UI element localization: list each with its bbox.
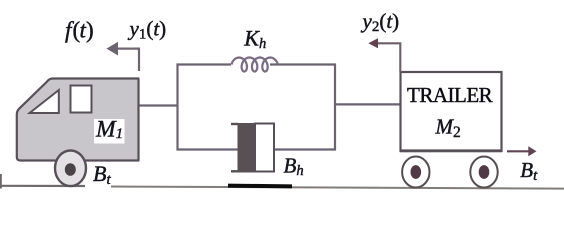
svg-text:TRAILER: TRAILER [407, 83, 493, 107]
svg-text:Bt: Bt [93, 161, 111, 188]
svg-text:y2(t): y2(t) [361, 9, 400, 35]
svg-text:y1(t): y1(t) [128, 17, 167, 43]
svg-text:Bt: Bt [520, 158, 538, 184]
svg-text:Kh: Kh [243, 26, 266, 53]
svg-text:Bh: Bh [284, 154, 304, 180]
svg-text:): ) [86, 18, 94, 43]
